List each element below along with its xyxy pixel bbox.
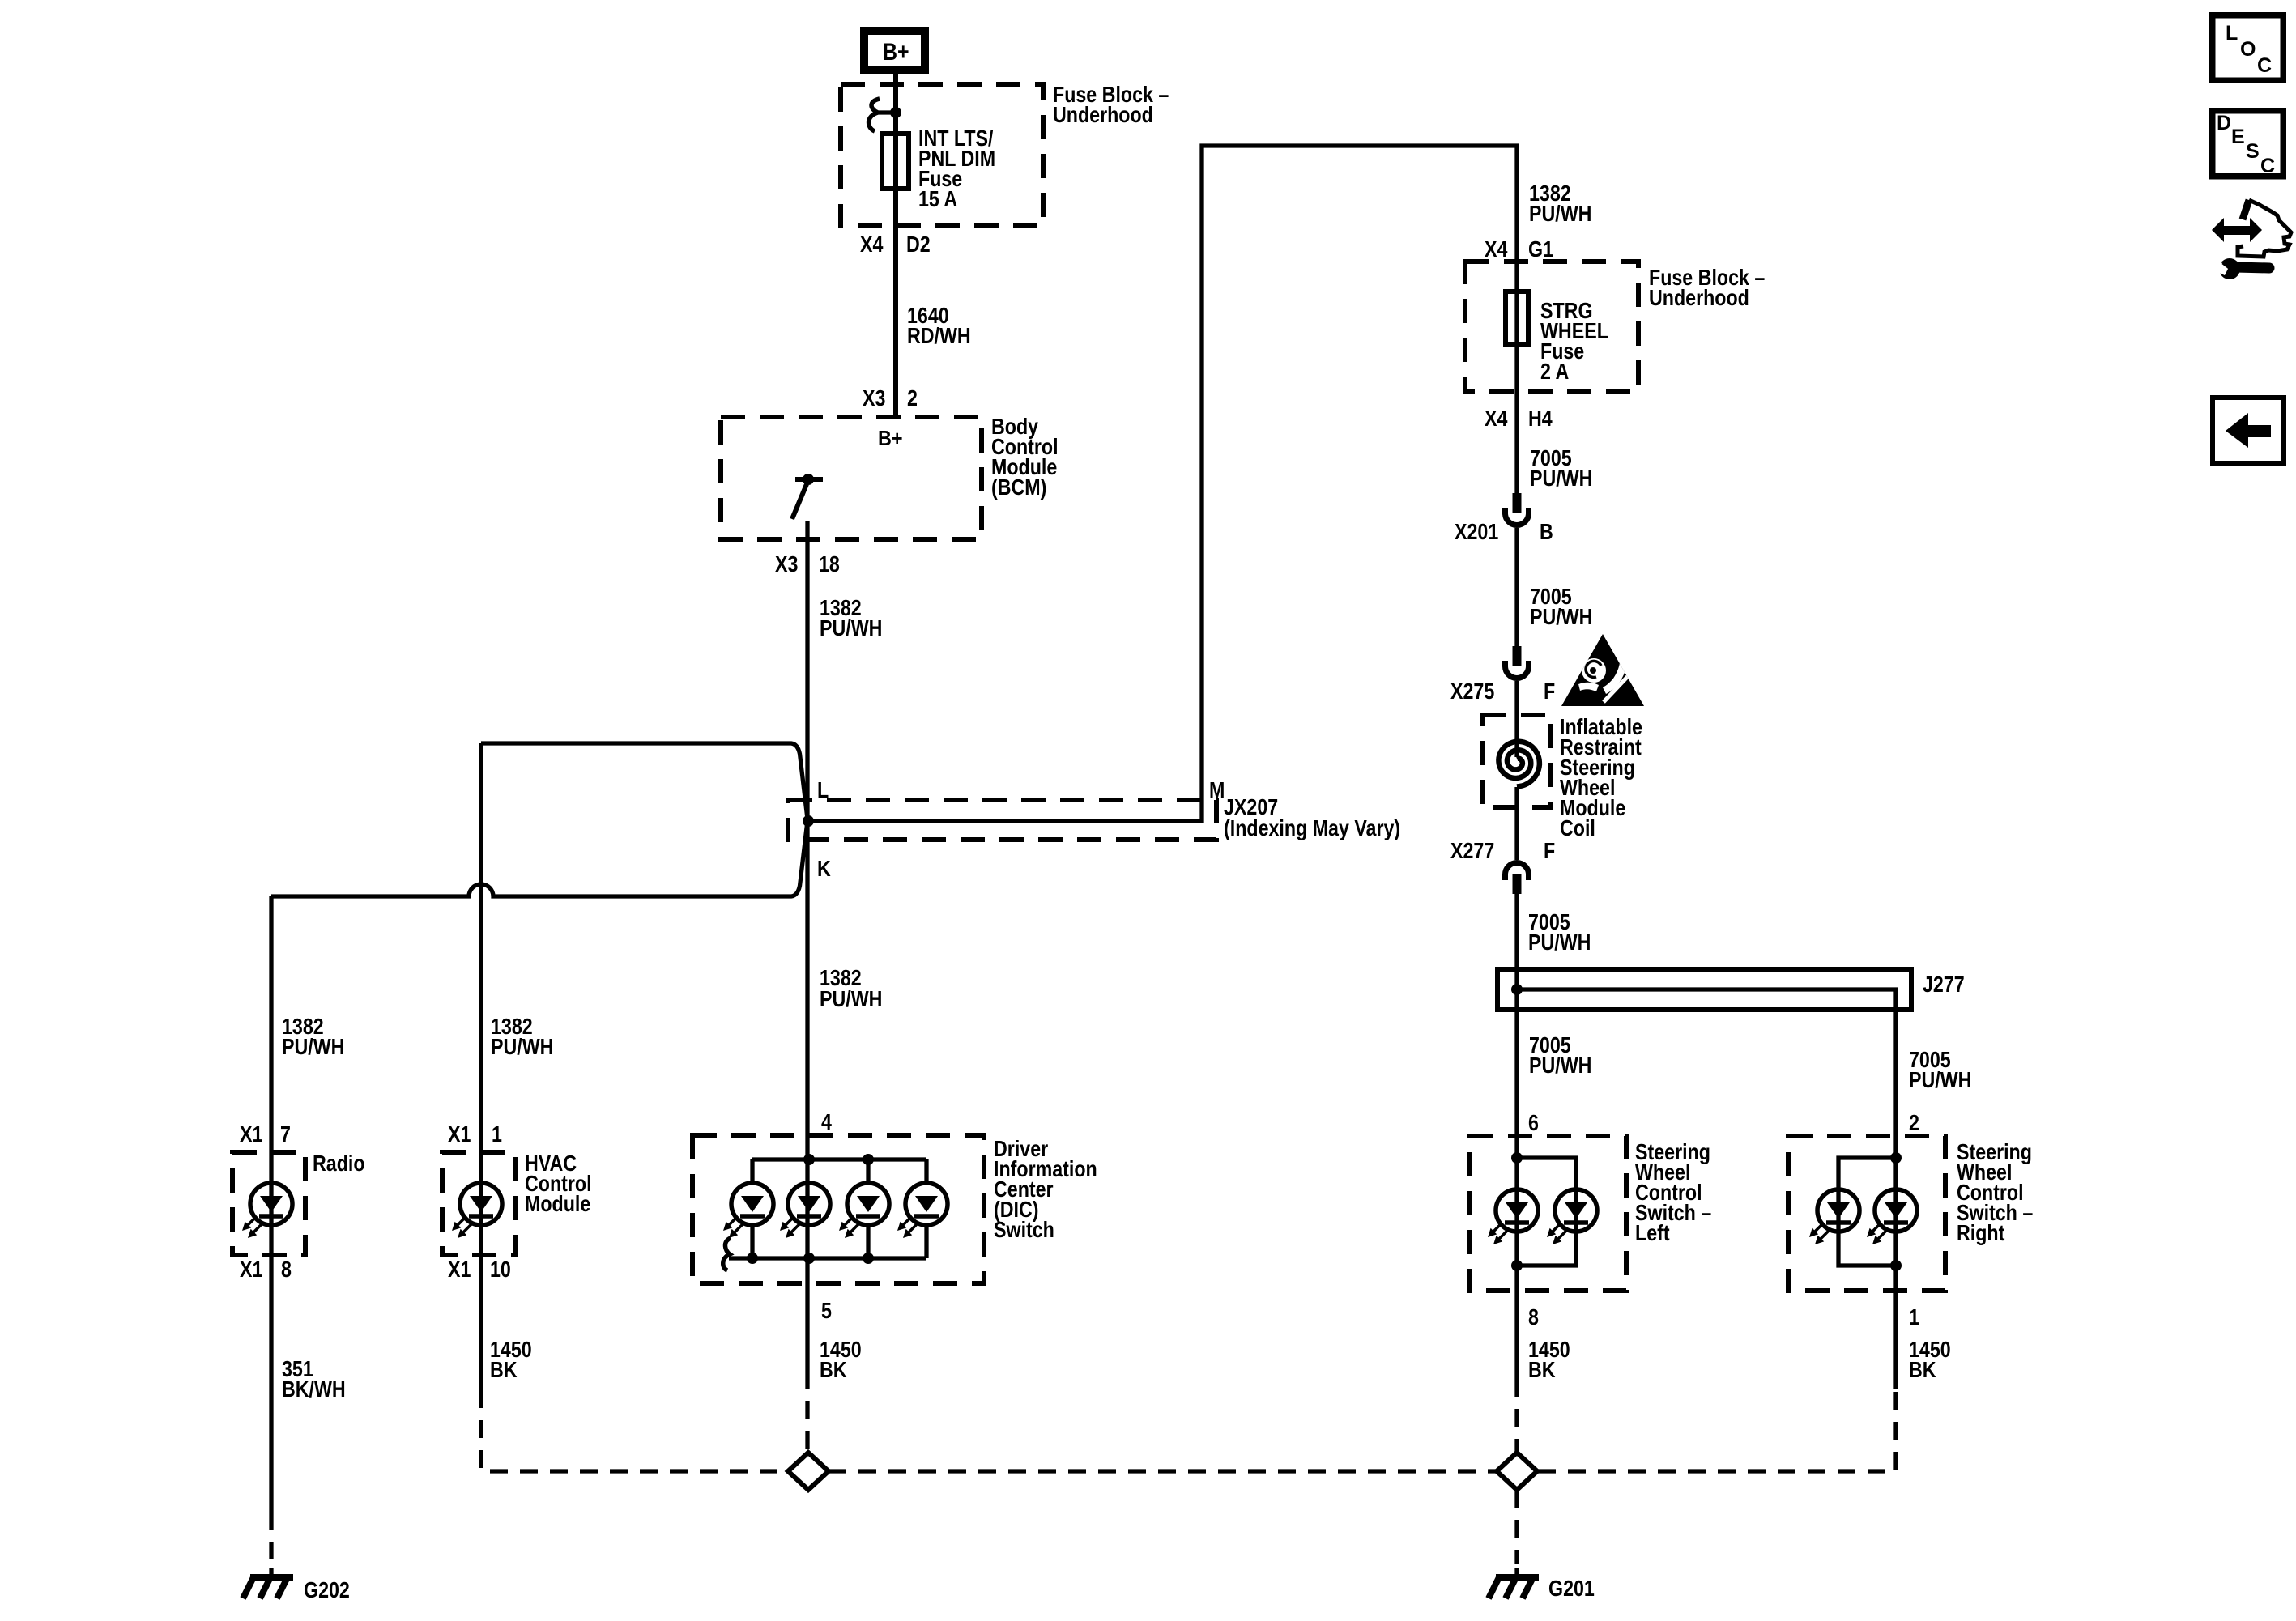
- svg-text:Coil: Coil: [1560, 816, 1595, 840]
- svg-text:PU/WH: PU/WH: [491, 1035, 553, 1059]
- svg-text:5: 5: [821, 1299, 832, 1323]
- svg-text:PU/WH: PU/WH: [1909, 1068, 1971, 1092]
- svg-text:Switch: Switch: [994, 1218, 1054, 1242]
- svg-text:X201: X201: [1455, 520, 1498, 544]
- svg-text:PU/WH: PU/WH: [1528, 930, 1591, 955]
- svg-text:(BCM): (BCM): [991, 475, 1046, 500]
- svg-text:PU/WH: PU/WH: [820, 616, 882, 640]
- svg-text:PU/WH: PU/WH: [1530, 605, 1592, 629]
- svg-text:Underhood: Underhood: [1649, 286, 1749, 310]
- svg-text:G202: G202: [304, 1578, 350, 1602]
- svg-text:(Indexing May Vary): (Indexing May Vary): [1224, 816, 1400, 840]
- svg-text:K: K: [817, 857, 831, 881]
- svg-text:BK: BK: [820, 1358, 847, 1382]
- svg-text:4: 4: [821, 1110, 833, 1134]
- svg-text:O: O: [2240, 38, 2256, 61]
- svg-text:S: S: [2246, 140, 2260, 163]
- svg-text:X3: X3: [775, 552, 798, 576]
- svg-text:PU/WH: PU/WH: [1529, 1053, 1591, 1078]
- svg-text:M: M: [1209, 778, 1225, 802]
- svg-text:X4: X4: [1485, 406, 1508, 431]
- svg-text:B+: B+: [883, 38, 909, 66]
- svg-text:X4: X4: [860, 232, 884, 257]
- svg-text:L: L: [2226, 22, 2238, 45]
- svg-text:BK: BK: [1528, 1358, 1556, 1382]
- svg-text:F: F: [1544, 679, 1555, 704]
- svg-text:H4: H4: [1528, 406, 1553, 431]
- svg-text:Underhood: Underhood: [1053, 103, 1153, 127]
- svg-text:2: 2: [1909, 1111, 1919, 1135]
- svg-text:G1: G1: [1528, 237, 1553, 262]
- svg-text:8: 8: [1528, 1305, 1539, 1330]
- svg-text:X275: X275: [1450, 679, 1494, 704]
- svg-text:8: 8: [281, 1257, 292, 1282]
- svg-text:Right: Right: [1957, 1221, 2005, 1245]
- svg-text:18: 18: [819, 552, 840, 576]
- svg-text:J277: J277: [1923, 972, 1965, 997]
- svg-text:2 A: 2 A: [1540, 360, 1569, 384]
- svg-text:X1: X1: [448, 1257, 471, 1282]
- svg-text:X3: X3: [863, 386, 885, 411]
- svg-text:BK: BK: [490, 1358, 518, 1382]
- svg-text:F: F: [1544, 839, 1555, 863]
- svg-text:E: E: [2231, 126, 2245, 148]
- svg-text:PU/WH: PU/WH: [1529, 202, 1591, 226]
- svg-text:C: C: [2257, 54, 2272, 77]
- svg-text:RD/WH: RD/WH: [907, 324, 971, 348]
- svg-text:X1: X1: [240, 1257, 262, 1282]
- svg-text:Left: Left: [1635, 1221, 1670, 1245]
- svg-text:X277: X277: [1450, 839, 1494, 863]
- svg-text:PU/WH: PU/WH: [820, 987, 882, 1011]
- svg-text:L: L: [817, 778, 829, 802]
- svg-text:X4: X4: [1485, 237, 1508, 262]
- svg-text:G201: G201: [1548, 1576, 1595, 1601]
- svg-text:Radio: Radio: [313, 1151, 365, 1176]
- svg-text:PU/WH: PU/WH: [282, 1035, 344, 1059]
- svg-text:7: 7: [280, 1122, 291, 1147]
- svg-text:6: 6: [1528, 1111, 1539, 1135]
- svg-text:10: 10: [490, 1257, 511, 1282]
- svg-text:15 A: 15 A: [918, 187, 957, 211]
- svg-text:X1: X1: [240, 1122, 262, 1147]
- svg-text:X1: X1: [448, 1122, 471, 1147]
- svg-text:2: 2: [907, 386, 918, 411]
- svg-text:BK: BK: [1909, 1358, 1936, 1382]
- svg-text:C: C: [2260, 155, 2275, 177]
- svg-text:B: B: [1540, 520, 1553, 544]
- svg-text:1: 1: [492, 1122, 502, 1147]
- svg-text:Module: Module: [525, 1192, 590, 1216]
- svg-text:1: 1: [1909, 1305, 1919, 1330]
- svg-text:D: D: [2217, 112, 2231, 134]
- svg-text:PU/WH: PU/WH: [1530, 466, 1592, 491]
- svg-text:D2: D2: [906, 232, 931, 257]
- svg-text:BK/WH: BK/WH: [282, 1377, 346, 1402]
- svg-text:B+: B+: [878, 428, 903, 450]
